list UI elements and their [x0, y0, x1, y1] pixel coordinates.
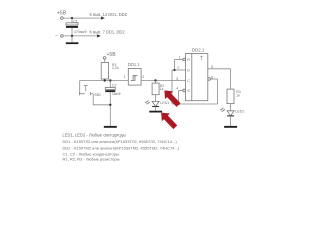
- wire R1 to input node: [104, 79, 106, 81]
- svg-text:5: 5: [211, 65, 213, 69]
- svg-text:2: 2: [142, 75, 144, 79]
- svg-text:C: C: [187, 79, 190, 83]
- wire feedback right vertical: [217, 79, 219, 104]
- svg-text:1: 1: [124, 75, 126, 79]
- svg-text:К выв. 14 DD1, DD2: К выв. 14 DD1, DD2: [90, 12, 128, 17]
- pin 2 D input: [172, 69, 186, 71]
- wire R2 to LED1: [155, 95, 157, 102]
- svg-text:T: T: [200, 56, 203, 62]
- svg-text:1к: 1к: [160, 87, 164, 91]
- svg-text:SB1: SB1: [94, 93, 101, 97]
- junction R1 / line: [104, 79, 106, 81]
- junction pin1/pin2: [173, 69, 175, 71]
- svg-text:R1, R2, R3 - Любые резисторы: R1, R2, R3 - Любые резисторы: [63, 157, 120, 162]
- wire to C1: [71, 18, 73, 23]
- pin 5 output: [208, 68, 231, 70]
- svg-text:3: 3: [176, 77, 178, 81]
- svg-text:4: 4: [176, 87, 178, 91]
- junction C2 / line: [109, 79, 111, 81]
- wire pin1 down: [174, 60, 176, 71]
- annotation red arrow at LED1: [157, 109, 179, 131]
- wire plus rail: [63, 17, 101, 19]
- wire R3 to LED2: [230, 104, 232, 111]
- svg-text:D: D: [187, 69, 190, 73]
- switch SB1: [78, 92, 80, 95]
- wire C1 to minus rail: [71, 28, 73, 36]
- svg-text:6: 6: [211, 76, 213, 80]
- wire pin4 down: [178, 91, 180, 105]
- terminal minus: [61, 35, 64, 38]
- ground under C2: [104, 126, 117, 128]
- ground under LED1: [149, 111, 162, 113]
- wire to R1: [104, 59, 106, 62]
- wire D feedback vertical: [171, 70, 173, 104]
- wire down to SB1: [80, 81, 85, 94]
- resistor R2: [155, 81, 157, 84]
- svg-text:1к: 1к: [236, 93, 240, 97]
- wire LED1 to ground: [155, 107, 157, 111]
- svg-text:DD2.1: DD2.1: [192, 48, 205, 53]
- junction minus rail: [71, 35, 73, 37]
- svg-text:+5В: +5В: [57, 11, 67, 17]
- wire pin5 to R3: [230, 69, 232, 89]
- wire minus rail: [63, 35, 97, 37]
- svg-text:R: R: [187, 58, 190, 62]
- svg-text:1мкФ: 1мкФ: [112, 92, 121, 96]
- wire to ground: [71, 36, 73, 42]
- LED2: [227, 111, 234, 116]
- junction R2 tap: [154, 79, 156, 81]
- junction pin4/feedback: [177, 103, 179, 105]
- pin 6 inverted output: [208, 78, 211, 81]
- junction plus rail / C1: [71, 17, 73, 19]
- wire SB1 to bottom node: [93, 94, 110, 105]
- svg-text:1: 1: [179, 56, 181, 60]
- LED1: [152, 101, 159, 106]
- ground (common) symbol: [66, 42, 79, 44]
- resistor R3: [227, 89, 234, 104]
- ground under LED2: [224, 126, 237, 128]
- arrow to pin 7 DD1, DD2: [97, 34, 101, 37]
- svg-text:C2: C2: [112, 84, 117, 88]
- arrow to pin 14 DD1, DD2: [101, 16, 105, 19]
- capacitor C2: [109, 81, 111, 88]
- wire C2 bottom: [109, 92, 111, 126]
- wire DD1.1 output line: [141, 80, 185, 82]
- svg-text:К выв. 7 DD1, DD2: К выв. 7 DD1, DD2: [90, 30, 126, 35]
- svg-text:2: 2: [177, 66, 179, 70]
- resistor R1: [101, 63, 108, 80]
- svg-text:S: S: [187, 89, 190, 93]
- svg-text:+5В: +5В: [107, 52, 117, 58]
- wire feedback bottom: [172, 103, 218, 105]
- svg-text:LED1: LED1: [160, 101, 169, 105]
- svg-text:LED2: LED2: [235, 109, 244, 113]
- svg-text:470мкФ: 470мкФ: [74, 30, 87, 34]
- wire input node line: [80, 80, 129, 82]
- wire LED2 to ground: [230, 116, 232, 126]
- terminal +5V: [61, 17, 64, 20]
- svg-text:DD1.1: DD1.1: [128, 62, 141, 67]
- annotation red arrow at R2: [160, 87, 182, 109]
- terminal +5V R1: [103, 57, 106, 60]
- svg-text:DD1 - К155ТЛ2 или аналоги(КР15: DD1 - К155ТЛ2 или аналоги(КР1533ТЛ2, К55…: [63, 139, 178, 144]
- svg-text:LED1, LED2 - Любые светодиоды: LED1, LED2 - Любые светодиоды: [63, 132, 126, 137]
- pin 4 S input: [183, 89, 186, 92]
- junction SB1 / C2: [109, 104, 111, 106]
- svg-text:DD2 - К155ТМ2 или аналоги(КР15: DD2 - К155ТМ2 или аналоги(КР1533ТМ2, К55…: [63, 145, 180, 150]
- hysteresis symbol: [131, 76, 138, 81]
- svg-text:−: −: [55, 34, 58, 40]
- svg-text:2,2к: 2,2к: [112, 66, 119, 70]
- pin 1 R input: [183, 58, 186, 61]
